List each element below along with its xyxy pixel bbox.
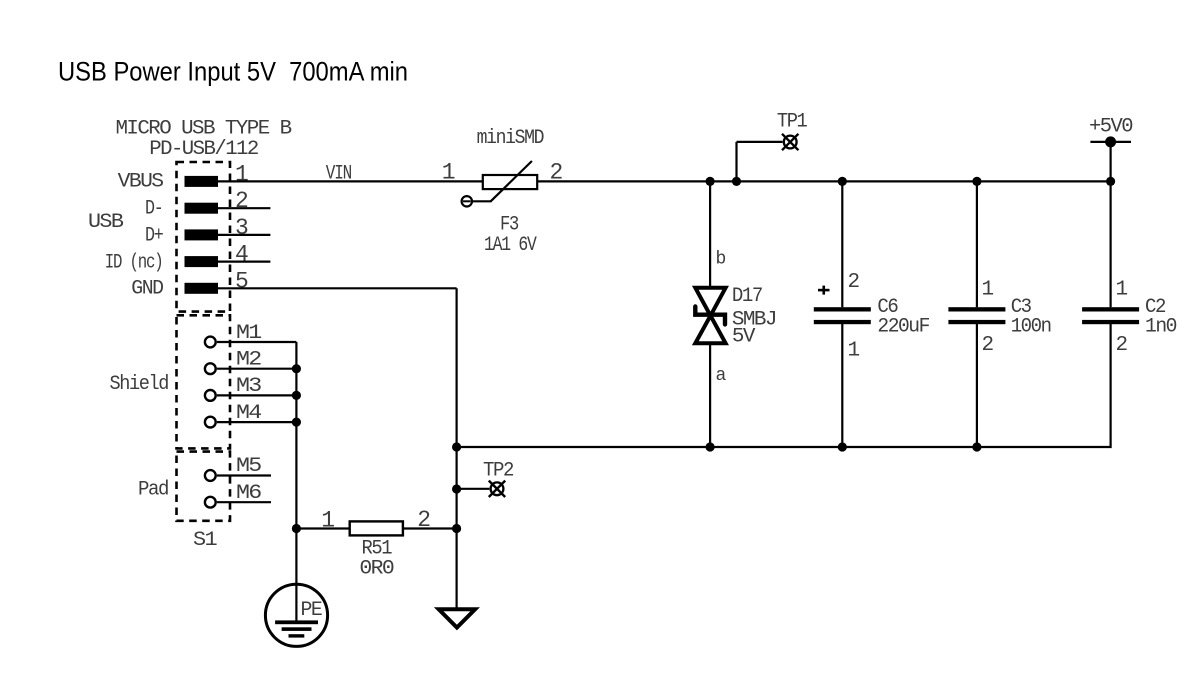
power symbol +5V0 (1090, 136, 1131, 147)
wire VBUS to fuse (218, 180, 483, 182)
pin ID pad bar (185, 256, 219, 267)
capacitor C2 plates (1082, 307, 1139, 311)
wire M6 stub (217, 501, 271, 503)
svg-text:3: 3 (235, 215, 249, 241)
pin name labels (105, 171, 169, 502)
capacitor C3 plates (948, 307, 1005, 311)
capacitor C6 plates (814, 307, 871, 311)
wire M5 stub (217, 474, 271, 476)
svg-text:VBUS: VBUS (118, 171, 164, 194)
svg-text:2: 2 (982, 334, 995, 357)
wire M1 (217, 341, 297, 343)
pin GND pad bar (185, 283, 219, 294)
svg-text:D-: D- (145, 198, 163, 221)
earth ground PE (265, 584, 327, 646)
pin D+ pad bar (185, 229, 219, 240)
pin numbers 1-5 (235, 161, 249, 294)
M4 pin circle (205, 417, 216, 428)
resistor R51 (350, 521, 403, 535)
wire shield bus vertical (295, 342, 297, 622)
svg-text:a: a (716, 366, 727, 386)
fuse F3 miniSMD (462, 161, 538, 207)
wire M4 (217, 421, 297, 423)
test point TP2 (457, 481, 506, 497)
svg-text:miniSMD: miniSMD (477, 127, 544, 150)
svg-text:220uF: 220uF (877, 316, 929, 339)
wire GND vertical down (456, 288, 458, 609)
svg-text:2: 2 (417, 507, 431, 533)
capacitor C2 wires (1109, 142, 1111, 307)
svg-text:Shield: Shield (110, 373, 169, 396)
svg-text:VIN: VIN (326, 163, 352, 186)
capacitor C6 plus sign (818, 286, 830, 295)
svg-text:2: 2 (848, 271, 861, 294)
capacitor C3 wires (976, 181, 978, 307)
svg-text:D17: D17 (732, 285, 762, 308)
svg-text:1: 1 (848, 339, 861, 362)
svg-text:Pad: Pad (138, 479, 168, 502)
svg-text:4: 4 (235, 242, 249, 268)
svg-text:100n: 100n (1011, 316, 1051, 339)
svg-text:USB: USB (88, 211, 124, 234)
svg-text:GND: GND (131, 278, 163, 301)
ground triangle (439, 609, 475, 627)
wire pin2 stub (218, 207, 270, 209)
svg-text:USB Power Input 5V 700mA min: USB Power Input 5V 700mA min (58, 57, 408, 87)
svg-text:D+: D+ (145, 225, 163, 248)
svg-text:TP2: TP2 (483, 459, 513, 482)
wire R51 right (403, 527, 457, 529)
svg-text:TP1: TP1 (777, 110, 808, 133)
svg-text:ID (nc): ID (nc) (105, 251, 163, 274)
wire fuse to +5V0 rail (537, 180, 1110, 182)
M3 pin circle (205, 390, 216, 401)
M6 pin circle (205, 497, 216, 508)
svg-text:1: 1 (982, 279, 995, 302)
svg-text:5V: 5V (732, 326, 756, 349)
svg-text:0R0: 0R0 (359, 558, 393, 581)
M5 pin circle (205, 470, 216, 481)
svg-text:PE: PE (301, 599, 322, 622)
svg-text:PD-USB/112: PD-USB/112 (149, 138, 258, 161)
capacitor C6 wires (841, 181, 843, 307)
svg-text:1: 1 (442, 160, 456, 186)
wire R51 left (296, 527, 349, 529)
svg-text:1: 1 (235, 161, 249, 187)
wire bottom GND rail (457, 322, 1111, 447)
svg-text:b: b (716, 250, 727, 270)
TVS diode D17 symbol (695, 288, 725, 344)
svg-text:+5V0: +5V0 (1089, 116, 1133, 139)
connector S1 dashed box pins 1-5 (177, 162, 231, 312)
svg-text:2: 2 (235, 188, 249, 214)
svg-text:S1: S1 (193, 529, 218, 552)
wire GND pin5 horizontal (218, 287, 457, 289)
M1 pin circle (205, 337, 216, 348)
wire M2 (217, 368, 297, 370)
svg-text:1A1 6V: 1A1 6V (484, 234, 537, 257)
M pin labels (236, 322, 262, 505)
wire pin4 stub (218, 261, 270, 263)
svg-text:2: 2 (1116, 334, 1129, 357)
svg-text:1: 1 (1116, 279, 1129, 302)
connector S1 dashed box shield M1-M4 (177, 315, 231, 448)
connector S1 header text (116, 118, 293, 161)
TVS diode D17 vertical wire (709, 181, 711, 447)
wire M3 (217, 394, 297, 396)
svg-text:2: 2 (550, 159, 564, 185)
svg-text:5: 5 (235, 268, 249, 294)
connector S1 dashed box pad M5-M6 (177, 452, 231, 521)
M2 pin circle (205, 363, 216, 374)
svg-text:1n0: 1n0 (1145, 316, 1176, 339)
wire pin3 stub (218, 234, 270, 236)
test point TP1 (737, 134, 799, 182)
svg-text:1: 1 (321, 507, 335, 533)
pin VBUS pad bar (185, 176, 219, 187)
pin D- pad bar (185, 203, 219, 214)
